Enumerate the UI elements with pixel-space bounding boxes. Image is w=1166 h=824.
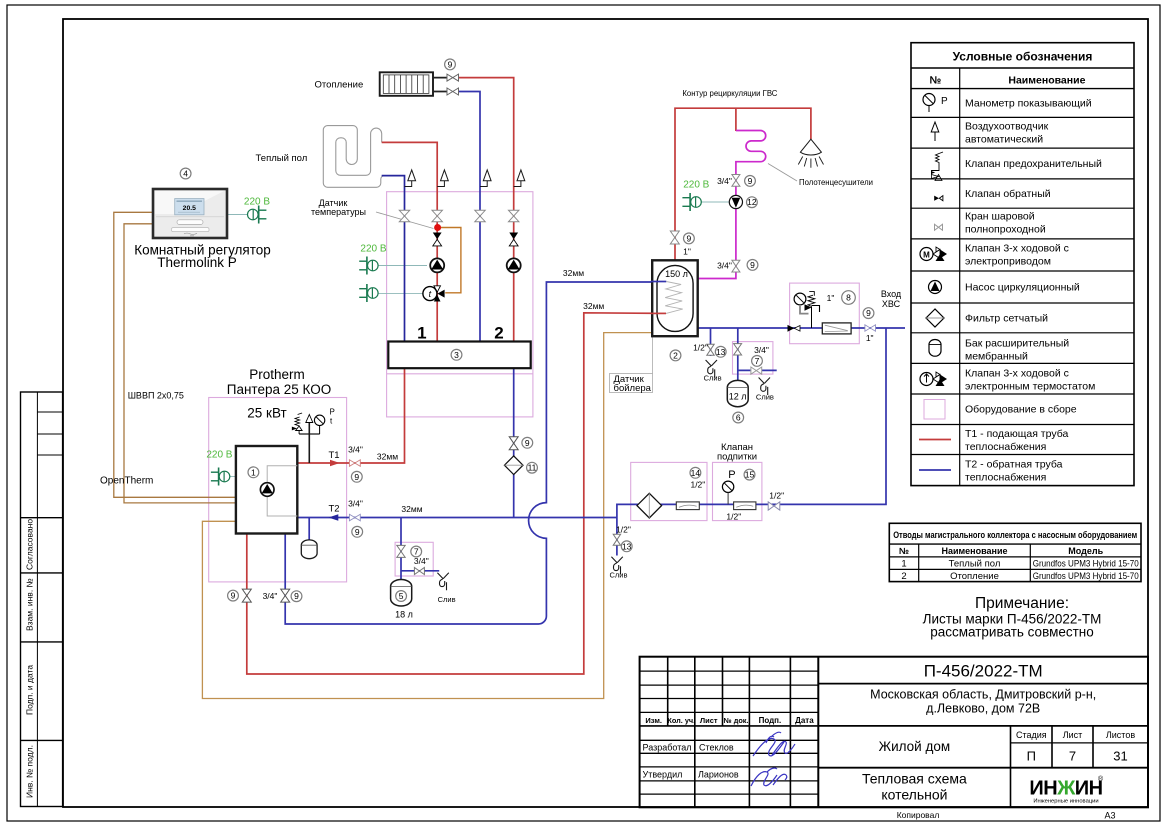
svg-text:18 л: 18 л: [395, 610, 413, 620]
svg-text:4: 4: [183, 169, 188, 179]
title block outline: [640, 657, 1148, 808]
svg-text:3/4": 3/4": [348, 498, 363, 508]
svg-text:9: 9: [294, 591, 299, 601]
title block right part lines: [818, 683, 1148, 685]
svg-text:2: 2: [901, 571, 906, 582]
circled 5: [396, 591, 407, 602]
svg-text:Стадия: Стадия: [1016, 730, 1047, 740]
svg-text:13: 13: [716, 347, 726, 357]
assembly box D 12L tank group: [733, 342, 773, 375]
svg-text:Т2: Т2: [328, 504, 339, 515]
svg-text:32мм: 32мм: [401, 504, 422, 514]
LEGEND: [911, 43, 1134, 486]
svg-text:Теплый пол: Теплый пол: [256, 153, 308, 164]
legend sym 3-way motor valve: [920, 247, 947, 261]
svg-text:№: №: [899, 546, 909, 556]
12L drain ball valve: [751, 367, 762, 374]
svg-text:11: 11: [528, 463, 537, 473]
pipe DHW hot out to shower: [675, 108, 811, 260]
svg-text:1": 1": [827, 293, 835, 303]
svg-text:Модель: Модель: [1068, 546, 1103, 556]
flow arrow riser 2: [433, 233, 442, 246]
room thermostat U4: [153, 189, 227, 238]
svg-text:15: 15: [745, 470, 755, 480]
svg-text:Согласовано: Согласовано: [25, 519, 35, 570]
legend sym expansion tank: [929, 340, 941, 357]
svg-text:Р: Р: [728, 469, 735, 481]
svg-text:мембранный: мембранный: [965, 351, 1028, 363]
pipe DHW recirculation stub: [735, 108, 737, 131]
svg-text:Инженерные инновации: Инженерные инновации: [1033, 799, 1098, 805]
leader temperature sensor: [376, 212, 434, 229]
svg-text:№: №: [930, 75, 942, 87]
svg-text:Дата: Дата: [795, 716, 814, 725]
svg-text:3/4": 3/4": [414, 556, 429, 566]
cold water inlet ball valve: [865, 325, 876, 331]
wire capillary to 3-way valve: [441, 228, 461, 293]
svg-text:7: 7: [414, 547, 419, 557]
svg-text:20.5: 20.5: [183, 205, 196, 212]
svg-text:Клапан 3-х ходовой с: Клапан 3-х ходовой с: [965, 243, 1069, 255]
svg-text:подпитки: подпитки: [717, 452, 757, 463]
boiler safety group pipe: [299, 422, 320, 463]
plug 220V boiler: [211, 468, 230, 486]
wire boiler DHW sensor: [202, 333, 651, 699]
air vent riser 4: [514, 170, 525, 187]
legend sym assembly box: [924, 400, 945, 420]
make-up strainer 14: [637, 493, 662, 518]
svg-text:полнопроходной: полнопроходной: [965, 224, 1046, 236]
svg-text:150 л: 150 л: [665, 269, 688, 279]
svg-text:9: 9: [231, 591, 236, 601]
leader DHW sensor label: [652, 336, 654, 373]
radiator supply valve: [447, 74, 459, 81]
svg-text:7: 7: [755, 356, 760, 366]
svg-text:Полотенцесушители: Полотенцесушители: [799, 177, 873, 187]
cold water gauge: [794, 293, 808, 314]
svg-text:М: М: [923, 251, 930, 260]
18L expansion tank: [391, 580, 412, 606]
gas boiler U1: [236, 446, 297, 534]
svg-text:Лист: Лист: [1063, 730, 1083, 740]
svg-text:32мм: 32мм: [377, 452, 398, 462]
boiler expansion vessel: [301, 540, 317, 559]
svg-text:3/4": 3/4": [717, 176, 732, 186]
DHW tank drain valve 13: [707, 344, 714, 355]
safety group gauge P t: [314, 415, 324, 434]
svg-text:Наименование: Наименование: [941, 546, 1007, 556]
svg-text:Grundfos UPM3 Hybrid 15-70: Grundfos UPM3 Hybrid 15-70: [1033, 571, 1139, 582]
svg-text:9: 9: [866, 308, 871, 318]
circled 13 DHW drain: [715, 346, 726, 357]
svg-text:Т2 - обратная труба: Т2 - обратная труба: [965, 459, 1063, 471]
svg-text:электронным термостатом: электронным термостатом: [965, 381, 1095, 393]
svg-text:Слив: Слив: [438, 595, 456, 604]
svg-text:теплоснабжения: теплоснабжения: [965, 472, 1046, 484]
circled 9 towel upper: [745, 176, 756, 187]
make-up check valve 2: [734, 502, 756, 510]
pipe towel warmer meander: [698, 131, 766, 279]
wire 220V to pump 1: [378, 265, 427, 267]
svg-text:Условные обозначения: Условные обозначения: [953, 50, 1093, 64]
18L drain ball valve: [414, 568, 424, 575]
cold water check valve: [788, 325, 801, 332]
pipe make-up line: [617, 328, 886, 518]
svg-text:1/2": 1/2": [690, 479, 705, 489]
svg-text:Кран шаровой: Кран шаровой: [965, 211, 1035, 223]
svg-text:Слив: Слив: [610, 570, 628, 579]
air vent riser 2: [437, 170, 448, 187]
towel warmer lower valve: [732, 260, 740, 272]
make-up check valve 1: [676, 502, 699, 510]
svg-text:№ док.: № док.: [724, 716, 749, 725]
svg-text:1: 1: [417, 324, 426, 343]
svg-text:Отводы магистрального коллекто: Отводы магистрального коллектора с насос…: [893, 530, 1137, 541]
riser 3 valve: [475, 210, 485, 221]
svg-text:220 В: 220 В: [244, 196, 270, 207]
assembly box A manifold group: [387, 192, 533, 417]
circled 7 12L: [752, 356, 763, 367]
svg-text:220 В: 220 В: [206, 450, 232, 461]
svg-text:8: 8: [846, 293, 851, 303]
DHW storage tank 150L: [651, 260, 698, 336]
svg-text:9: 9: [750, 260, 755, 270]
circled 14: [690, 467, 701, 478]
svg-text:ХВС: ХВС: [882, 299, 901, 309]
svg-text:220 В: 220 В: [360, 244, 386, 255]
svg-text:Слив: Слив: [704, 373, 722, 382]
svg-text:3/4": 3/4": [717, 260, 732, 270]
circled 9 T2: [352, 526, 363, 537]
pipe boiler DHW return with hop: [285, 282, 652, 624]
make-up gauge P: [722, 481, 733, 504]
assembly box F make-up strainer group: [631, 462, 707, 520]
svg-text:32мм: 32мм: [583, 301, 604, 311]
svg-text:9: 9: [448, 59, 453, 69]
plug 220V DHW pump: [682, 193, 701, 211]
svg-text:5: 5: [399, 591, 404, 601]
svg-text:П: П: [1027, 749, 1036, 764]
12L drain hook: [759, 378, 770, 396]
logo INZHIN: [1029, 775, 1104, 805]
circled 9 XVS: [863, 308, 874, 319]
svg-text:Копировал: Копировал: [897, 810, 940, 820]
svg-text:Разработал: Разработал: [643, 743, 692, 753]
svg-text:3: 3: [454, 350, 459, 360]
pipe T2 return main: [297, 517, 617, 519]
sensor label box: [610, 374, 653, 394]
DHW recirculation pump 12: [729, 195, 742, 208]
svg-text:Инв. № подл.: Инв. № подл.: [25, 745, 35, 798]
cold water pressure reducer: [805, 292, 820, 328]
svg-text:220 В: 220 В: [683, 180, 709, 191]
pipe 18L tank branch: [401, 518, 439, 580]
legend header line: [911, 67, 1134, 69]
svg-text:д.Левково, дом 72В: д.Левково, дом 72В: [926, 702, 1040, 716]
legend sym strainer: [926, 309, 944, 327]
T2 flow arrow: [328, 514, 338, 520]
title block horizontal rows: [640, 670, 819, 672]
pipe T2 drain branch: [616, 518, 618, 556]
circled 9 boiler drain right: [291, 591, 302, 602]
svg-text:9: 9: [354, 472, 359, 482]
svg-text:Вход: Вход: [881, 289, 902, 299]
svg-text:Подп.: Подп.: [759, 716, 782, 725]
circled 15: [744, 469, 755, 480]
svg-text:12 л: 12 л: [729, 391, 747, 401]
manifold return valve: [509, 437, 518, 450]
circled 9 towel lower: [747, 260, 758, 271]
wire 220V to 3-way valve: [378, 292, 423, 294]
svg-text:Слив: Слив: [756, 392, 774, 401]
pipe expansion vessel stub: [308, 518, 310, 541]
pipe DHW tank drain branch: [710, 328, 712, 356]
signature 1: [753, 732, 795, 756]
pipe T1 boiler to manifold: [297, 368, 404, 463]
svg-text:Бак расширительный: Бак расширительный: [965, 338, 1069, 350]
T2 drain valve 13: [613, 534, 620, 545]
radiator return valve: [447, 88, 459, 95]
legend sym safety valve: [931, 152, 943, 181]
svg-text:Примечание:: Примечание:: [975, 595, 1069, 612]
signature 2: [751, 768, 787, 786]
svg-text:Клапан предохранительный: Клапан предохранительный: [965, 158, 1102, 170]
boiler internal pump: [260, 483, 274, 497]
svg-text:Московская область, Дмитровски: Московская область, Дмитровский р-н,: [870, 688, 1096, 702]
DHW tank drain hook: [706, 360, 717, 378]
svg-text:Т1 - подающая труба: Т1 - подающая труба: [965, 428, 1068, 440]
18L drain hook: [437, 573, 448, 591]
svg-text:Р: Р: [941, 96, 948, 107]
svg-text:котельной: котельной: [881, 787, 947, 803]
towel warmer upper valve: [732, 175, 740, 187]
DHW tank inlet valve: [670, 231, 679, 244]
svg-text:Grundfos UPM3 Hybrid 15-70: Grundfos UPM3 Hybrid 15-70: [1033, 559, 1139, 570]
circled 2: [670, 350, 681, 361]
pump 2 radiator circuit: [507, 258, 521, 272]
circled 6: [733, 412, 744, 423]
svg-text:Пантера 25 КОО: Пантера 25 КОО: [227, 382, 331, 397]
assembly box E cold water inlet group: [790, 283, 860, 344]
title block vertical lines left part: [667, 657, 669, 713]
svg-text:Т1: Т1: [328, 450, 339, 461]
plug 220V 3-way valve: [359, 284, 378, 302]
svg-text:9: 9: [525, 438, 530, 448]
legend sym 3-way thermo valve: [920, 372, 947, 386]
12L group valve: [734, 344, 742, 355]
svg-text:ШВВП 2х0,75: ШВВП 2х0,75: [128, 390, 184, 400]
svg-text:2: 2: [673, 350, 678, 360]
svg-text:1/2": 1/2": [726, 511, 741, 521]
left margin stamp box: [21, 392, 63, 807]
air vent riser 3: [480, 170, 491, 187]
svg-text:1: 1: [901, 559, 906, 570]
legend sym T1 line: [919, 439, 951, 441]
svg-text:6: 6: [736, 413, 741, 423]
pipe boiler DHW supply bottom loop: [247, 313, 666, 674]
assembly box B boiler group: [209, 398, 347, 582]
svg-text:1/2": 1/2": [616, 525, 631, 535]
legend row lines: [911, 116, 1134, 118]
pipe cold water inlet: [698, 327, 905, 329]
legend sym T2 line: [919, 469, 951, 471]
wire 220V to thermostat: [227, 214, 248, 216]
svg-text:автоматический: автоматический: [965, 134, 1043, 146]
svg-text:25 кВт: 25 кВт: [247, 405, 286, 420]
svg-text:Листов: Листов: [1106, 730, 1135, 740]
svg-text:Наименование: Наименование: [1008, 75, 1085, 87]
svg-text:Фильтр сетчатый: Фильтр сетчатый: [965, 313, 1048, 325]
svg-text:9: 9: [687, 233, 692, 243]
pump 1 floor circuit: [430, 258, 444, 272]
T2 drain hook: [611, 557, 622, 575]
wire OpenTherm B: [124, 224, 236, 503]
circled 12: [747, 197, 758, 208]
svg-text:Отопление: Отопление: [950, 571, 999, 582]
svg-text:бойлера: бойлера: [614, 383, 652, 394]
pipe manifold return riser: [513, 368, 515, 517]
safety group air vent: [306, 415, 313, 423]
circled 8: [842, 291, 856, 305]
plug 220V pump 1: [359, 257, 378, 275]
svg-text:1: 1: [251, 467, 256, 477]
LEFTSTRIP: [21, 392, 63, 807]
svg-text:Protherm: Protherm: [249, 367, 305, 382]
legend sym air vent: [931, 122, 939, 141]
svg-text:1/2": 1/2": [769, 490, 784, 500]
riser 2 valve: [432, 210, 442, 221]
svg-text:Клапан обратный: Клапан обратный: [965, 188, 1051, 200]
svg-text:Тепловая схема: Тепловая схема: [862, 771, 967, 787]
circled 9 boiler drain left: [228, 590, 239, 601]
circled 9 radiator: [445, 59, 456, 70]
svg-text:9: 9: [748, 176, 753, 186]
temperature sensor dot: [434, 224, 441, 231]
legend sym ball valve: [935, 224, 943, 230]
circled 13 T2 drain: [621, 541, 632, 552]
pipe radiator supply riser: [459, 78, 514, 342]
svg-text:13: 13: [622, 541, 632, 551]
cold water filter cartridge: [822, 323, 851, 334]
circled 7 18L: [411, 546, 422, 557]
svg-text:Жилой дом: Жилой дом: [879, 739, 951, 754]
svg-text:3/4": 3/4": [754, 345, 769, 355]
12L expansion tank: [727, 380, 748, 406]
legend table outline: [911, 43, 1134, 486]
radiator: [380, 72, 448, 96]
svg-text:Отопление: Отопление: [315, 80, 364, 91]
flow arrow riser 4: [509, 233, 518, 246]
svg-text:7: 7: [1069, 749, 1076, 764]
plug 220V thermostat: [248, 206, 267, 224]
svg-text:температуры: температуры: [311, 207, 366, 217]
svg-text:Контур рециркуляции ГВС: Контур рециркуляции ГВС: [682, 88, 777, 98]
svg-text:OpenTherm: OpenTherm: [100, 475, 153, 486]
svg-text:14: 14: [691, 468, 701, 478]
circled 1: [248, 467, 259, 478]
svg-text:Воздухоотводчик: Воздухоотводчик: [965, 121, 1049, 133]
leader towel warmers: [768, 164, 797, 182]
svg-text:Подп. и дата: Подп. и дата: [25, 665, 35, 715]
svg-text:Изм.: Изм.: [645, 716, 662, 725]
PIPES: [114, 78, 905, 699]
svg-text:А3: А3: [1104, 811, 1115, 821]
wire 220V to boiler: [230, 476, 236, 478]
svg-text:12: 12: [747, 197, 757, 207]
3-way valve with thermostat: [423, 286, 445, 302]
svg-text:П-456/2022-ТМ: П-456/2022-ТМ: [924, 662, 1043, 681]
stamp small rows: [37, 411, 62, 413]
pipe floor supply riser: [382, 142, 438, 341]
T1 valve: [349, 460, 360, 467]
T2 valve: [349, 514, 360, 521]
legend column divider: [959, 68, 961, 486]
pipe floor return riser: [382, 176, 405, 342]
svg-text:ИНЖИН: ИНЖИН: [1029, 778, 1102, 800]
OTVODY: [889, 523, 1141, 639]
18L group valve: [397, 545, 405, 557]
make-up ball valve: [768, 502, 780, 510]
assembly box G make-up valve group: [713, 462, 762, 520]
svg-text:Утвердил: Утвердил: [643, 769, 683, 779]
svg-text:2: 2: [494, 324, 503, 343]
svg-text:P: P: [330, 408, 335, 417]
svg-text:Оборудование в сборе: Оборудование в сборе: [965, 404, 1077, 416]
floor heating coil loop: [323, 126, 384, 188]
T1 flow arrow: [330, 460, 340, 466]
svg-text:Клапан 3-х ходовой с: Клапан 3-х ходовой с: [965, 368, 1069, 380]
pipe 12L tank branch: [738, 328, 777, 384]
svg-text:рассматривать совместно: рассматривать совместно: [930, 625, 1094, 640]
pipe radiator return riser: [459, 92, 481, 342]
stamp column divider: [36, 392, 38, 807]
svg-text:9: 9: [355, 527, 360, 537]
circled 4: [180, 168, 191, 179]
riser 4 valve: [509, 210, 519, 221]
circled 9 T1: [351, 471, 362, 482]
boiler drain valve blue: [281, 589, 290, 602]
svg-text:3/4": 3/4": [348, 444, 363, 454]
svg-text:3/4": 3/4": [263, 591, 278, 601]
wire 220V to DHW pump: [701, 201, 729, 203]
svg-text:Ларионов: Ларионов: [698, 769, 739, 779]
svg-text:Насос циркуляционный: Насос циркуляционный: [965, 282, 1080, 294]
assembly box C 18L tank group: [395, 542, 433, 576]
circled 11: [527, 462, 538, 473]
circled 9 manifold return: [522, 437, 533, 448]
otvody table outline: [889, 523, 1141, 581]
svg-text:Thermolink P: Thermolink P: [157, 255, 237, 270]
circled 3: [451, 349, 462, 360]
TITLEBLOCK: [640, 657, 1148, 821]
legend sym manometer: [923, 94, 935, 113]
strainer filter 11: [504, 456, 523, 475]
svg-text:32мм: 32мм: [563, 268, 584, 278]
svg-text:Взам. инв. №: Взам. инв. №: [25, 578, 35, 631]
svg-text:®: ®: [1098, 775, 1104, 783]
svg-text:31: 31: [1113, 749, 1127, 764]
svg-text:1": 1": [866, 333, 874, 343]
legend sym pump: [929, 281, 942, 294]
manifold collector: [388, 342, 530, 369]
riser 1 valve: [399, 210, 409, 221]
svg-text:теплоснабжения: теплоснабжения: [965, 441, 1046, 453]
svg-text:1/2": 1/2": [693, 342, 708, 352]
svg-text:электроприводом: электроприводом: [965, 256, 1051, 268]
boiler drain valve red: [242, 589, 251, 602]
legend sym check valve: [934, 196, 943, 201]
assembly box A divider: [387, 373, 533, 375]
